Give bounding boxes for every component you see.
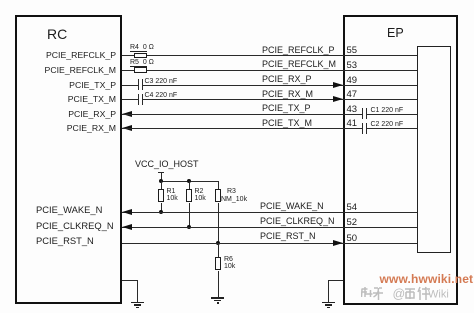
label PCIE_TX_M (RC) <box>68 94 116 104</box>
arrow into EP pin 49 <box>333 82 343 88</box>
resistor R3 <box>215 189 221 202</box>
arrow into RC CLKREQ <box>122 224 132 230</box>
resistor R1 <box>158 189 164 202</box>
wire RC ground stub vertical <box>137 280 138 302</box>
label R3 NM_10k <box>227 188 236 195</box>
power rail wire <box>161 181 219 182</box>
ground below R6 <box>0 0 1 1</box>
node R1-WAKE <box>159 210 163 214</box>
wire TX_M right segment <box>143 99 417 100</box>
wire TX_M left segment <box>122 99 138 100</box>
label PCIE_REFCLK_P (EP) <box>262 45 335 55</box>
wire EP ground stub vertical <box>328 280 329 302</box>
label PCIE_REFCLK_P (RC) <box>46 50 116 60</box>
RC label <box>47 26 67 42</box>
EP inner rectangle <box>417 46 451 253</box>
label PCIE_TX_P (EP) <box>262 103 311 113</box>
label PCIE_WAKE_N (EP) <box>260 201 324 211</box>
label PCIE_RX_P (EP) <box>262 74 312 84</box>
label PCIE_RX_M (RC) <box>67 123 116 133</box>
label PCIE_CLKREQ_N (RC) <box>36 220 114 231</box>
pin 47 <box>347 89 358 100</box>
wire CLKREQ <box>122 227 417 228</box>
node rail-R1 <box>159 179 163 183</box>
node rail-R2 <box>187 179 191 183</box>
label PCIE_RST_N (EP) <box>260 231 316 241</box>
label R5 0 Ohm <box>130 59 154 66</box>
label C4 220 nF <box>145 92 178 99</box>
wire R2 bottom stem <box>189 203 190 228</box>
wire R1 bottom stem <box>161 203 162 212</box>
pin 43 <box>347 104 358 115</box>
watermark zhihu @yingjianWiki <box>361 286 456 301</box>
svg-text:@: @ <box>393 287 406 301</box>
label PCIE_RX_P (RC) <box>68 109 116 119</box>
wire WAKE <box>122 212 417 213</box>
node R2-CLKREQ <box>187 225 191 229</box>
wire RST <box>122 243 417 244</box>
pin 55 <box>347 45 358 56</box>
resistor R6 <box>215 257 221 270</box>
pin 41 <box>347 118 358 129</box>
resistor R4 <box>134 53 147 59</box>
wire RX_M <box>122 128 362 129</box>
svg-text:Wiki: Wiki <box>428 289 449 301</box>
capacitor C2 <box>0 0 1 1</box>
wire TX_P left segment <box>122 85 138 86</box>
wire R1 top stem <box>161 181 162 190</box>
arrow into EP pin 50 <box>333 240 343 246</box>
wire RX_P <box>122 114 362 115</box>
pin 52 <box>347 217 358 228</box>
wire EP ground stub horizontal <box>328 280 343 281</box>
label R1 10k <box>167 188 178 202</box>
wire RX_P inside EP <box>367 114 417 115</box>
label PCIE_WAKE_N (RC) <box>36 204 102 215</box>
arrow into RC RX_P <box>122 111 132 117</box>
pin 49 <box>347 75 358 86</box>
capacitor C4 <box>0 0 1 1</box>
label C3 220 nF <box>145 78 178 85</box>
label R2 10k <box>195 188 206 202</box>
wire REFCLK_M right segment <box>147 70 417 71</box>
wire R2 top stem <box>189 181 190 190</box>
label PCIE_CLKREQ_N (EP) <box>260 216 335 226</box>
wire TX_P right segment <box>143 85 417 86</box>
label C2 220 nF <box>371 121 404 128</box>
wire RC ground stub horizontal <box>122 280 138 281</box>
label PCIE_REFCLK_M (EP) <box>262 59 336 69</box>
wire REFCLK_P right segment <box>147 55 417 56</box>
label PCIE_RX_M (EP) <box>262 89 313 99</box>
pin 54 <box>347 202 358 213</box>
wire R6 top stem <box>218 243 219 258</box>
EP label <box>387 26 404 40</box>
RC box <box>15 15 122 304</box>
label PCIE_TX_M (EP) <box>262 118 312 128</box>
label C1 220 nF <box>371 107 404 114</box>
wire RX_M inside EP <box>367 128 417 129</box>
EP box <box>343 15 458 305</box>
resistor R2 <box>186 189 192 202</box>
power symbol VCC_IO_HOST <box>0 0 1 1</box>
wire REFCLK_P left segment <box>122 55 134 56</box>
node R3-RST <box>216 241 220 245</box>
arrow into EP pin 47 <box>333 96 343 102</box>
label VCC_IO_HOST <box>135 159 199 169</box>
wire REFCLK_M left segment <box>122 70 134 71</box>
label PCIE_TX_P (RC) <box>69 80 116 90</box>
capacitor C1 <box>0 0 1 1</box>
resistor R5 <box>134 67 147 73</box>
capacitor C3 <box>0 0 1 1</box>
ground RC <box>0 0 1 1</box>
pin 50 <box>347 233 358 244</box>
wire R3 bottom stem <box>218 203 219 243</box>
label PCIE_RST_N (RC) <box>36 235 94 246</box>
label PCIE_REFCLK_M (RC) <box>45 65 116 75</box>
ground EP <box>0 0 1 1</box>
label R4 0 Ohm <box>130 44 154 51</box>
label R6 10k <box>224 256 235 270</box>
pin 53 <box>347 60 358 71</box>
wire R6 bottom stem <box>218 271 219 298</box>
watermark www.hwwiki.net <box>380 272 474 286</box>
arrow into RC WAKE <box>122 209 132 215</box>
arrow into RC RX_M <box>122 125 132 131</box>
wire R3 top stem <box>218 181 219 190</box>
